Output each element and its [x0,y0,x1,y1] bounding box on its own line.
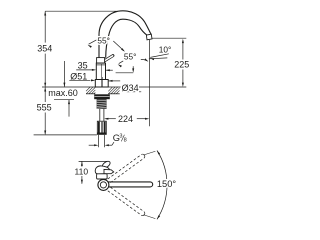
lever tip oval [101,160,111,169]
svg-text:354: 354 [37,43,52,53]
55deg no1 left leader [89,40,97,44]
arrow Ø51 left-side pointing right [91,79,95,81]
svg-text:max.60: max.60 [48,88,78,98]
arrow 55no1 left [87,44,92,48]
swivel dashed ray upper [108,155,144,183]
svg-text:55°: 55° [97,36,110,46]
arrow 354 top [44,11,46,15]
svg-text:55°: 55° [124,51,137,61]
arrow 110 bottom [81,180,83,184]
Ø34 underline [120,91,141,93]
55deg no2 right leader [141,59,148,61]
spout bar [103,182,152,187]
hose tubes [99,109,101,121]
water outlet vertical line [148,40,150,126]
arrow 225 down [182,83,184,87]
arrow leader down onto body [132,68,134,72]
svg-text:Ø34: Ø34 [122,83,139,93]
lever handle pointer [104,169,114,173]
hose coupling nut [97,121,106,133]
dim 35 underline [76,69,92,71]
dimension 225 line [182,41,184,60]
spout inner contour [106,19,147,58]
faucet side view [94,11,152,135]
spout outer contour [99,11,151,58]
arrow hose-dim left pointing right [94,144,98,146]
mousseur [146,34,152,40]
hose width dim arrows tails [89,144,95,146]
svg-text:224: 224 [118,114,133,124]
arrow arc bottom [156,215,160,220]
10-degree wedge lines [150,54,169,58]
svg-text:555: 555 [37,103,52,113]
arrow max60 up [68,100,70,104]
countertop reference line [42,86,186,88]
svg-text:35: 35 [78,60,88,70]
body circle inner [100,182,106,188]
valve body block [97,174,108,179]
body circle outer [98,179,109,190]
dimension 555 line [44,87,46,102]
hose-end reference line [34,134,97,136]
arrow hose-dim right pointing left [105,144,109,146]
svg-text:10°: 10° [159,44,172,54]
arrow 110 top [81,161,83,165]
max.60 upper witness line [63,61,65,87]
body cylinder [96,63,105,79]
leader assembly above body [132,66,134,70]
svg-text:8: 8 [124,137,127,143]
max.60 lower witness line [68,100,70,117]
swivel dashed ray lower [108,187,144,215]
arrow 35 right-side pointing left [106,69,110,71]
dimension 224 line [106,118,116,120]
lower ray end cap [141,212,145,216]
countertop bottom edges [86,93,95,95]
svg-text:Ø51: Ø51 [70,72,87,82]
dim Ø51 right tail [108,80,120,82]
svg-text:110: 110 [75,167,89,177]
G3/8 leader diagonal [112,142,114,145]
dimension 354 line [44,11,46,42]
55deg no1 right leader [113,41,124,51]
svg-text:150°: 150° [157,179,177,189]
swivel 150 arc [157,151,167,220]
countertop hatching [86,87,120,94]
threaded shank [97,99,107,109]
dim 35 right tail [106,69,113,71]
base flange [95,80,108,88]
G3/8 fraction slash [121,135,124,142]
arrow 55no1 right [121,48,126,52]
arrow 555 bottom [44,131,46,135]
svg-text:225: 225 [174,59,189,69]
arrow 55no2 left [117,63,122,67]
arrowheads [44,11,184,184]
110 top reference line [79,160,107,162]
top view [95,151,167,220]
arrow arc top [156,150,160,155]
dimension 110 line [81,161,83,167]
lower ray extension to arc [144,215,156,219]
60mm depth line [54,99,74,101]
arrow 10deg [150,57,155,60]
arrow 225 up [182,39,184,43]
dim Ø51 underline [69,79,90,81]
hose width extension lines [98,135,100,147]
arrow Ø51 right-side pointing left [108,80,112,82]
arrow 555 top [44,87,46,91]
locknut [94,94,110,99]
svg-text:3: 3 [119,134,122,140]
cartridge cap band [97,58,105,64]
arrow 55no2 right [144,58,149,62]
arrow 224 right [145,118,149,120]
upper ray extension to arc [144,151,156,155]
arrow 35 left-side pointing right [92,69,96,71]
225 top reference line (outlet level) [152,37,186,39]
arrow max60 down [63,83,65,87]
arrow 224 left [104,118,108,120]
lever main blob [95,166,109,174]
lever (handle) [104,56,113,61]
top extension line (spout apex level) [45,10,119,12]
55deg no2 left leader [119,61,123,64]
upper ray end cap [141,154,145,158]
arrow 354 bottom [44,83,46,87]
